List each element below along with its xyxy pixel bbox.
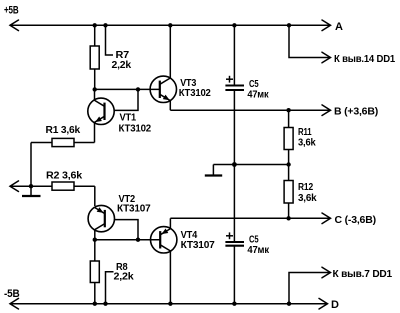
svg-text:47мк: 47мк bbox=[247, 244, 269, 256]
svg-text:КТ3107: КТ3107 bbox=[181, 239, 215, 251]
junction dot rail-A branch bbox=[287, 23, 291, 27]
junction dot bottom-VT4 bbox=[168, 302, 172, 306]
svg-text:К выв.14 DD1: К выв.14 DD1 bbox=[334, 53, 395, 65]
resistor R2 bbox=[52, 182, 95, 206]
mid 0V rail wire bbox=[213, 164, 288, 166]
R7 value label bbox=[112, 49, 132, 71]
svg-text:2,2k: 2,2k bbox=[112, 59, 132, 71]
svg-text:3,6k: 3,6k bbox=[298, 137, 316, 149]
junction dot common left bbox=[29, 184, 33, 188]
C5 bottom value label bbox=[247, 234, 269, 256]
R11 value label bbox=[298, 126, 316, 149]
junction dot rail-R7 bbox=[93, 23, 97, 27]
transistor VT4 bbox=[151, 218, 177, 303]
svg-text:2,2k: 2,2k bbox=[114, 270, 134, 282]
R12 value label bbox=[298, 181, 317, 204]
VT3 label bbox=[179, 77, 211, 99]
svg-text:КТ3107: КТ3107 bbox=[117, 202, 151, 214]
junction dot bottom-R8 bbox=[93, 302, 97, 306]
transistor VT1 bbox=[88, 89, 138, 142]
node A arrow bbox=[322, 20, 343, 33]
svg-text:D: D bbox=[331, 299, 339, 311]
resistor R8 bbox=[90, 240, 99, 304]
svg-text:B (+3,6В): B (+3,6В) bbox=[334, 106, 378, 118]
VT4 label bbox=[181, 229, 215, 251]
VT1 label bbox=[119, 111, 152, 134]
resistor R12 bbox=[284, 165, 293, 219]
ground mid bbox=[205, 165, 222, 176]
junction dot mid-R11R12 bbox=[286, 162, 290, 166]
junction dot bottom-D branch bbox=[287, 302, 291, 306]
C5 top value label bbox=[247, 78, 269, 101]
wire R1 to common bbox=[30, 143, 32, 187]
wire node VT1 collector to VT3 base bbox=[95, 88, 160, 90]
svg-text:КТ3102: КТ3102 bbox=[179, 87, 211, 99]
transistor VT3 bbox=[150, 25, 176, 110]
capacitor C5 bottom bbox=[225, 165, 244, 304]
capacitor C5 top bbox=[225, 25, 244, 164]
R8 label leader wire bbox=[106, 272, 114, 304]
resistor R11 bbox=[284, 110, 293, 164]
resistor R7 bbox=[90, 25, 99, 89]
junction dot rail-leader bbox=[103, 23, 107, 27]
ground left bbox=[22, 186, 41, 196]
node C wire bbox=[170, 213, 330, 224]
svg-text:A: A bbox=[335, 21, 343, 33]
junction dot VT1 base tie bbox=[136, 87, 140, 91]
junction dot C-R12 bbox=[286, 216, 290, 220]
VT2 label bbox=[117, 193, 151, 214]
junction dot bottom-C5 bbox=[232, 302, 236, 306]
wire to pin 7 DD1 bbox=[289, 267, 331, 304]
junction dot VT2 base tie bbox=[136, 238, 140, 242]
node B wire bbox=[170, 105, 330, 116]
svg-text:R2 3,6k: R2 3,6k bbox=[46, 169, 82, 181]
svg-text:К выв.7 DD1: К выв.7 DD1 bbox=[333, 268, 393, 280]
svg-text:-5В: -5В bbox=[4, 288, 20, 300]
svg-text:КТ3102: КТ3102 bbox=[119, 122, 152, 134]
junction dot VT2 collector-R8 bbox=[93, 238, 97, 242]
junction dot R7-VT1 collector bbox=[93, 87, 97, 91]
-5V rail wire bbox=[10, 298, 327, 309]
node D arrow bbox=[319, 298, 339, 311]
svg-text:R1 3,6k: R1 3,6k bbox=[46, 124, 81, 136]
wire to pin 14 DD1 bbox=[289, 25, 331, 63]
svg-text:47мк: 47мк bbox=[247, 88, 269, 100]
svg-text:3,6k: 3,6k bbox=[298, 192, 317, 204]
wire node VT2 collector to VT4 base bbox=[95, 239, 160, 241]
resistor R1 bbox=[31, 138, 95, 146]
R7 label leader wire bbox=[106, 25, 114, 55]
R8 value label bbox=[114, 261, 134, 282]
junction dot rail-C5 bbox=[232, 23, 236, 27]
transistor VT2 bbox=[88, 205, 138, 239]
junction dot mid-C5 bbox=[232, 162, 237, 167]
junction dot bottom-leader bbox=[103, 302, 107, 306]
+5V rail wire bbox=[10, 20, 330, 31]
svg-text:C (-3,6В): C (-3,6В) bbox=[335, 214, 376, 226]
junction dot B-R11 bbox=[286, 108, 290, 112]
svg-text:+5В: +5В bbox=[4, 4, 19, 16]
junction dot rail-VT3 bbox=[168, 23, 172, 27]
common left arrow wire bbox=[10, 181, 52, 192]
